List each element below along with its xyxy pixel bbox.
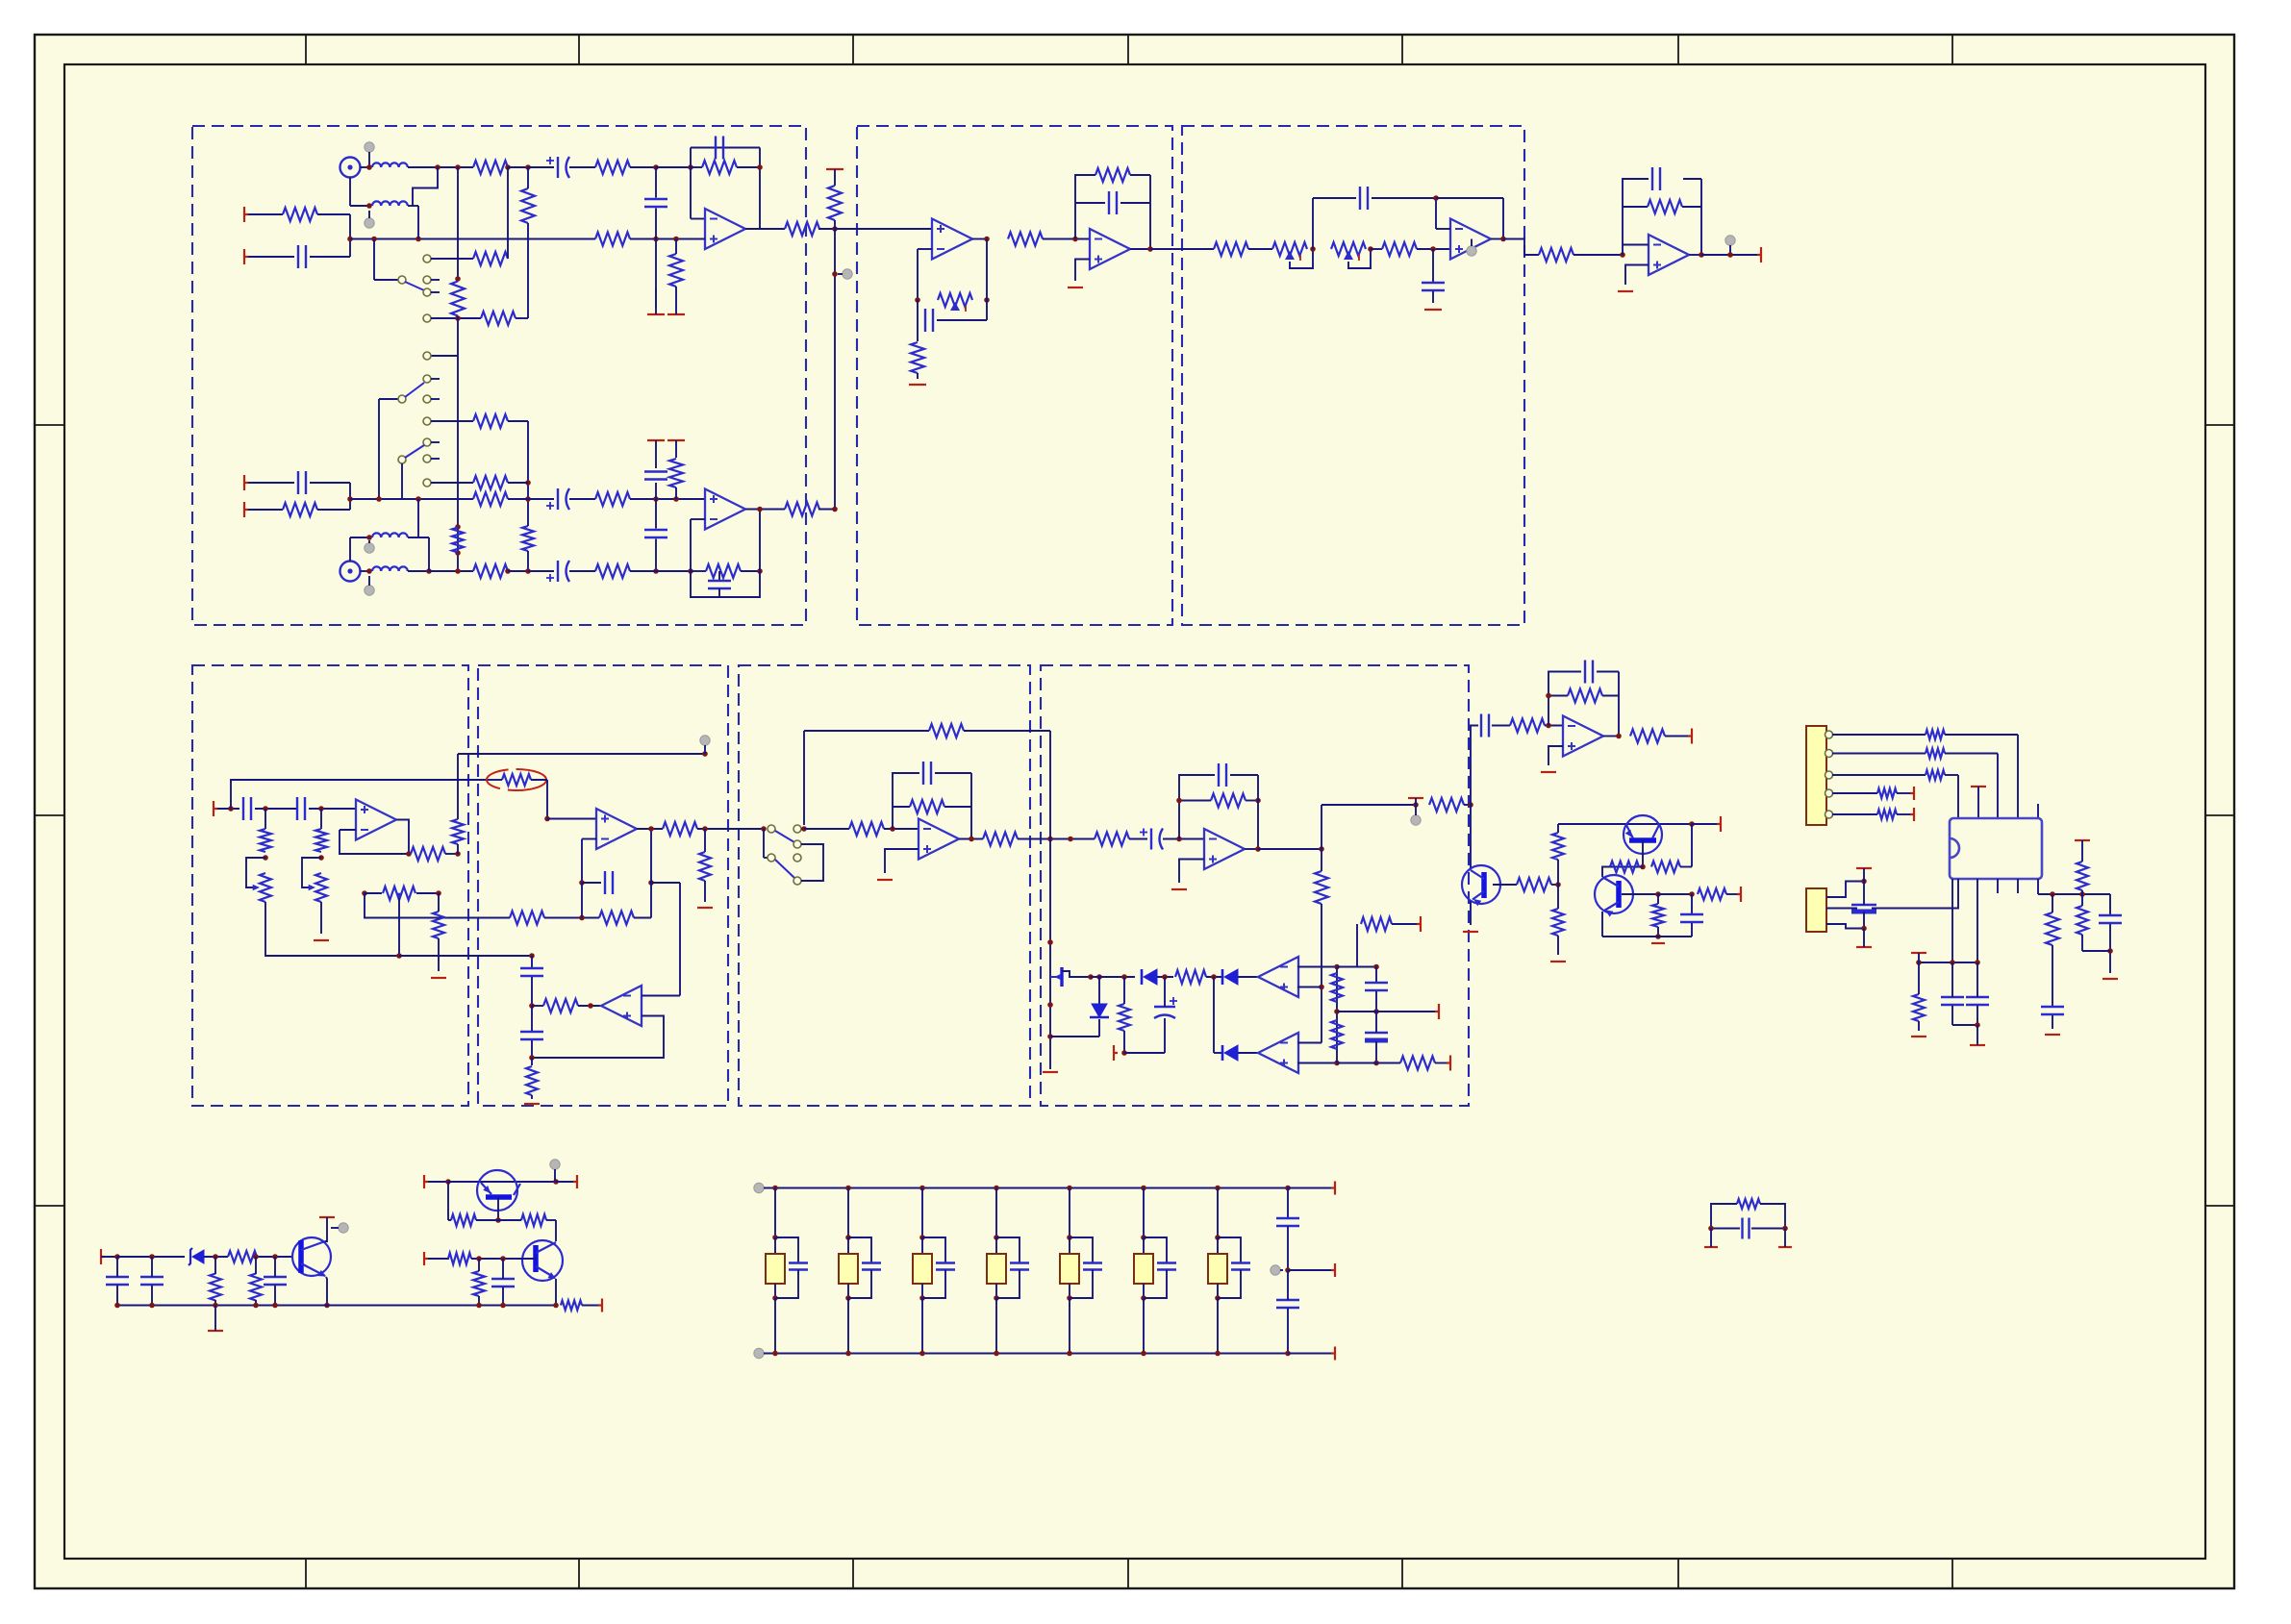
junction J4 top	[1861, 879, 1867, 885]
RV5 wiper strap wire	[302, 858, 321, 887]
wire	[1206, 976, 1223, 978]
wire ladder bottom rail	[764, 1353, 1288, 1355]
switch SW4 throw A1	[793, 825, 801, 833]
wire Q7 collector	[1602, 867, 1610, 878]
wire cap top rail	[1337, 966, 1376, 968]
junction emitter rail	[1655, 934, 1661, 939]
wire	[1464, 804, 1471, 806]
wire	[1432, 249, 1434, 283]
U2 feedback capacitor loop wire	[691, 571, 760, 597]
feedback resistor R31	[1648, 200, 1682, 213]
wire to ellipse resistor	[231, 780, 488, 809]
polarized capacitor C30	[1851, 904, 1876, 906]
wire rail3 to U2+	[630, 498, 705, 500]
net dot grey	[843, 269, 852, 279]
border zone ticks	[305, 35, 307, 1588]
wire	[1337, 966, 1357, 968]
wire Q1 collector	[325, 1225, 327, 1241]
switch SW2 contact 5	[423, 438, 431, 446]
resistor R26	[911, 342, 924, 373]
wire U6 output	[1689, 254, 1701, 256]
capacitor C31	[1941, 996, 1964, 998]
U11 fb cap rail wire	[1548, 672, 1581, 726]
junction ladder bottom 6	[1141, 1351, 1146, 1357]
wire Q5 rail top corner	[1471, 726, 1478, 806]
wire to U12	[1957, 775, 1959, 818]
resistor R51	[1119, 1004, 1130, 1031]
wire cap strap 6	[1144, 1237, 1167, 1262]
wire	[320, 809, 322, 829]
wire J4-1	[1826, 882, 1862, 898]
wire	[1050, 1036, 1099, 1037]
ground pin G9	[524, 1103, 540, 1105]
U4 feedback mid rail wire	[1075, 202, 1105, 204]
wire rail1 hook to shield row	[413, 167, 438, 206]
switch SW2 pivot	[398, 395, 406, 403]
wire leg 5 lower	[1069, 1284, 1070, 1298]
switch SW2 contact 6	[423, 455, 431, 462]
wire	[1129, 838, 1147, 840]
wire SW2 pivot to rail3	[378, 399, 380, 499]
junction ladder top 5	[1067, 1186, 1072, 1191]
junction F node	[801, 826, 807, 832]
capacitor C35	[106, 1276, 129, 1278]
wire	[1863, 912, 1865, 929]
power pin VL1	[1331, 1182, 1335, 1195]
junction trim-b	[984, 297, 990, 303]
junction ladder bottom 7	[1215, 1351, 1221, 1357]
ground pin G3	[909, 384, 926, 386]
junction to Q5 rail	[1468, 802, 1473, 808]
wire	[544, 917, 599, 919]
resistor R60	[1552, 909, 1564, 936]
wire to U2 inverting input	[690, 519, 692, 571]
junction ladder top 7	[1215, 1186, 1221, 1191]
wire fb right	[1049, 731, 1051, 833]
wire Q7 row	[1608, 866, 1643, 868]
wire	[471, 1258, 536, 1260]
feedback capacitor C23	[1218, 763, 1220, 787]
transistor Q5	[1462, 865, 1500, 904]
wire to U5 non-inverting input	[1417, 248, 1450, 250]
wire J1-1	[1832, 734, 1926, 736]
U6 feedback cap rail wire	[1623, 179, 1649, 245]
switch SW2 contact 1	[423, 352, 431, 360]
net dot grey Q1	[339, 1223, 348, 1233]
resistor R4	[785, 222, 819, 236]
connector J1 pin 3	[1825, 771, 1833, 779]
RV6 wiper arrow	[396, 893, 403, 900]
wire U9 fb right	[970, 773, 972, 839]
power pin VP15	[2075, 839, 2090, 841]
wire U7 output to fb	[396, 820, 409, 855]
wire to SW1 pivot	[373, 239, 375, 281]
wire cap strap 2	[848, 1237, 871, 1262]
junction mid rail	[1373, 1009, 1379, 1014]
resistor R17	[283, 503, 317, 516]
op-amp U5	[1450, 219, 1491, 260]
net dot grey ladder mid	[1271, 1265, 1280, 1275]
op-amp U7	[356, 800, 396, 840]
wire Q2 base row	[428, 1258, 449, 1260]
switch SW4 throw A2	[793, 840, 801, 848]
network resistor pack RN6	[1134, 1254, 1153, 1284]
feedback capacitor C15	[1651, 167, 1653, 190]
wire	[655, 239, 657, 309]
resistor R65	[1926, 730, 1945, 739]
op-amp U6	[1649, 235, 1689, 275]
wire det down chain	[1321, 849, 1322, 871]
polarized capacitor C24	[1154, 1006, 1175, 1008]
resistor R35 (circled)	[502, 774, 531, 786]
wire	[1557, 885, 1559, 909]
junction U8 fb-a	[579, 880, 585, 886]
wire	[309, 808, 356, 810]
wire leg 4 upper	[995, 1188, 997, 1238]
resistor R68	[1877, 788, 1897, 798]
wire RC loop top right	[1760, 1204, 1785, 1229]
wire line out	[1701, 254, 1757, 256]
RCA jack P2 (right in)	[340, 562, 361, 582]
polarized capacitor C6	[557, 488, 559, 510]
ground pin G21	[2045, 1034, 2060, 1036]
U6 feedback res rail wire	[1623, 206, 1648, 208]
trimmer RV4 lower	[260, 873, 271, 902]
resistor R63	[1698, 888, 1726, 900]
wire	[1392, 923, 1417, 925]
resistor R59	[1552, 833, 1564, 860]
wire	[556, 1181, 573, 1183]
capacitor CL7	[1231, 1262, 1250, 1263]
wire fb to EQ-a	[1312, 198, 1314, 249]
wire U12 right pin	[2037, 879, 2039, 894]
wire ground rail	[117, 1305, 555, 1307]
U11 + input ground wire	[1548, 746, 1563, 765]
wire	[675, 440, 677, 458]
U13 inverting wire	[642, 995, 680, 997]
wire ladder top rail	[764, 1187, 1288, 1189]
wire leg 7 lower	[1217, 1284, 1219, 1298]
connector J1 pin 1	[1825, 731, 1833, 738]
wire cap strap 3 lower	[922, 1270, 945, 1299]
U14 - input wire	[1297, 966, 1337, 968]
wire feed-forward top	[458, 753, 705, 755]
wire bottom rail	[1337, 1062, 1400, 1064]
switch SW1 pivot	[398, 276, 406, 284]
connector J1 pin 4	[1825, 789, 1833, 797]
power pin VP17	[573, 1175, 577, 1188]
resistor R70	[1913, 994, 1925, 1021]
ground pin G14	[1541, 771, 1556, 773]
wire U12 pin to cap row b	[1976, 879, 1978, 962]
junction U11 inv node	[1546, 723, 1551, 729]
wire leg 1 lower	[774, 1284, 776, 1298]
ground pin G20	[1970, 1044, 1985, 1046]
capacitor C3	[297, 245, 299, 268]
resistor R7	[283, 208, 317, 221]
network resistor pack RN7	[1208, 1254, 1227, 1284]
RV6 left strap wire	[365, 893, 488, 918]
wire J4-2	[1826, 908, 1857, 910]
wire cap bottom	[1952, 1024, 1977, 1026]
wire	[264, 809, 266, 829]
resistor R5	[828, 186, 842, 220]
wire Q3 emitter	[497, 1197, 499, 1220]
switch SW1 contact 3	[423, 288, 431, 296]
capacitor C41	[1741, 1218, 1743, 1239]
wire U10 fb right	[1257, 775, 1259, 849]
resistor R12	[451, 282, 465, 316]
junction U13 in	[529, 1003, 535, 1009]
wire	[1287, 1188, 1289, 1218]
switch SW4 throw B1	[793, 854, 801, 862]
wire	[457, 167, 459, 281]
ground pin G5	[1424, 309, 1442, 311]
network resistor pack RN1	[766, 1254, 785, 1284]
wire	[1945, 734, 2018, 736]
capacitor C39	[1276, 1217, 1299, 1219]
resistor R25	[1008, 233, 1043, 246]
ground pin G1	[647, 313, 665, 315]
ground pin G10	[877, 879, 893, 881]
wire divider left	[447, 1182, 449, 1220]
wire cap row	[1919, 962, 1977, 963]
net dot grey	[365, 586, 374, 595]
capacitor C38	[491, 1278, 515, 1280]
RV4 wiper strap wire	[246, 858, 265, 887]
wire	[255, 808, 297, 810]
capacitor C4	[644, 198, 667, 200]
wire	[917, 300, 919, 320]
wire	[417, 206, 419, 239]
ground pin G11	[1171, 888, 1187, 890]
wire	[527, 223, 529, 318]
feedback resistor R27	[1095, 168, 1130, 182]
RV3 wiper strap wire	[1348, 249, 1371, 268]
wire	[204, 1256, 228, 1258]
resistor R66	[1926, 749, 1945, 759]
wire to U8 + input	[547, 818, 596, 820]
wire	[531, 779, 547, 781]
junction ladder bottom 4	[994, 1351, 999, 1357]
RV6 wiper down wire	[398, 898, 400, 956]
feedback resistor R56	[1568, 689, 1602, 703]
resistor R72	[2077, 862, 2088, 890]
junction rail1-a	[505, 164, 511, 170]
resistor R50	[1361, 917, 1392, 931]
wire fb row extension	[651, 882, 680, 884]
capacitor C34	[2099, 914, 2122, 916]
junction rail1-c	[653, 164, 659, 170]
U14 pullup wire	[1356, 924, 1358, 967]
U10 fb cap rail wire	[1179, 775, 1215, 839]
wire to U11 inverting input	[1545, 725, 1563, 727]
net dot grey mon	[1411, 815, 1421, 825]
junction Q3 out	[553, 1179, 559, 1185]
wire ellipse node down	[546, 780, 548, 819]
U4 + input ground wire	[1075, 260, 1090, 282]
wire	[1435, 1062, 1447, 1064]
resistor R33	[452, 819, 464, 844]
capacitor CL5	[1083, 1262, 1102, 1263]
junction U2 out node	[832, 507, 838, 512]
junction trim-a	[915, 297, 920, 303]
wire EQ output jog	[1503, 239, 1539, 256]
wire G left rail	[1049, 839, 1051, 1070]
wire J4-3	[1826, 924, 1862, 929]
feedback resistor R46	[1211, 794, 1246, 808]
wire to Q2 collector	[555, 1220, 557, 1241]
group box: oscillator amp	[478, 665, 728, 1106]
U10 fb res rail wire	[1179, 800, 1211, 802]
wire to U12	[2017, 735, 2019, 818]
U15 - input wire	[1297, 1042, 1322, 1044]
wire	[257, 1256, 291, 1258]
ground pin G25	[1778, 1246, 1792, 1248]
feedback capacitor C21	[922, 762, 924, 785]
power pin VP7	[1447, 1056, 1450, 1071]
wire leg 1 upper	[774, 1188, 776, 1238]
net dot grey	[365, 543, 374, 553]
RV4 wiper arrow	[253, 885, 260, 891]
wire cap strap 6 lower	[1144, 1270, 1167, 1299]
junction EQ-c	[1430, 246, 1436, 252]
ground pin G24	[1704, 1246, 1718, 1248]
junction U7 out	[406, 851, 412, 857]
wire divider	[1336, 967, 1338, 1063]
wire	[531, 1058, 533, 1065]
U15 + input wire	[1297, 1062, 1337, 1064]
ground pin G9b	[697, 907, 713, 909]
wire J1-2	[1832, 753, 1926, 755]
junction U1 fb	[757, 164, 763, 170]
resistor R69	[1877, 810, 1897, 819]
wire cap strap 7 lower	[1218, 1270, 1241, 1299]
resistor R21	[473, 564, 508, 578]
transistor Q2	[522, 1240, 563, 1281]
resistor R20	[669, 459, 683, 487]
wire J4 cap to U12	[1872, 879, 1958, 909]
feedback capacitor C14	[1359, 187, 1361, 210]
op-amp U9	[919, 819, 959, 860]
wire cap strap 1	[775, 1237, 798, 1262]
resistor R9	[473, 252, 508, 265]
junction ladder top 6	[1141, 1186, 1146, 1191]
wire	[1557, 824, 1559, 833]
wire cap strap 3	[922, 1237, 945, 1262]
junction U8 + node	[544, 816, 550, 822]
power pin VP2	[647, 439, 665, 441]
resistor R18	[473, 492, 508, 506]
wire U10 output	[1245, 848, 1258, 850]
power pin VL3	[1331, 1347, 1335, 1361]
wire	[1091, 976, 1135, 978]
switch SW3 pivot	[398, 456, 406, 463]
wire Q7 base	[1622, 893, 1658, 895]
wire to R42	[804, 828, 849, 830]
power pin VP3	[667, 439, 685, 441]
wire	[581, 883, 583, 918]
wire	[1436, 197, 1503, 199]
resistor R58	[1517, 878, 1551, 891]
wire Q5 emitter	[1470, 901, 1472, 925]
switch SW2 contact 2	[423, 375, 431, 383]
wire	[445, 853, 458, 855]
capacitor CL6	[1157, 1262, 1176, 1263]
network resistor pack RN5	[1060, 1254, 1079, 1284]
power pin VP4	[1408, 797, 1423, 799]
U1 feedback resistor rail wire	[691, 166, 702, 168]
resistor R22	[595, 564, 630, 578]
trimmer RV5 upper	[315, 829, 327, 852]
wire supply rail	[101, 1256, 117, 1258]
feedback capacitor C12	[1108, 191, 1110, 214]
wire cap strap 5 lower	[1070, 1270, 1093, 1299]
ground pin G4	[1068, 287, 1083, 288]
wire to U6 inverting node	[1573, 254, 1623, 256]
wire diode row	[1062, 971, 1091, 977]
junction trim row	[362, 890, 367, 896]
wire SW3 pivot to rail3	[401, 463, 403, 499]
feedback capacitor C2	[715, 137, 717, 160]
junction V rail right	[1689, 821, 1695, 827]
power pin VP11	[1910, 808, 1914, 821]
wire	[248, 482, 294, 484]
junction E cap leg	[529, 953, 535, 959]
wire	[320, 902, 322, 934]
U7 fb loop wire	[340, 829, 356, 831]
wire to U3 non-inverting input	[835, 228, 932, 230]
junction D-in	[228, 806, 234, 812]
zener diode D3	[1092, 1004, 1107, 1017]
wire J1-4	[1832, 792, 1877, 794]
wire Q3 rail	[448, 1181, 556, 1183]
wire U11 fb right	[1618, 672, 1620, 737]
resistor R36b	[699, 852, 711, 881]
input pin IN-R+	[244, 475, 248, 490]
op-amp U3	[932, 219, 972, 260]
transistor Q7	[1595, 875, 1633, 913]
resistor R28	[1214, 242, 1248, 256]
diode D4	[1224, 1045, 1238, 1061]
wire Q5 collector rail	[1470, 805, 1472, 868]
wire U5 output	[1491, 238, 1503, 240]
junction D-out	[455, 851, 461, 857]
junction Q7 base node	[1655, 891, 1661, 897]
resistor R81	[561, 1301, 582, 1311]
wire	[1751, 1228, 1785, 1230]
wire	[349, 483, 351, 499]
wire cap strap 7	[1218, 1237, 1241, 1262]
ground pin G13	[1114, 1045, 1118, 1061]
resistor R8	[669, 254, 683, 287]
trimmer potentiometer RV2	[1272, 242, 1307, 256]
wire U2 output	[745, 509, 785, 511]
junction bottom rail	[396, 953, 402, 959]
wire V rail	[1558, 823, 1692, 825]
U10 + input ground wire	[1179, 860, 1204, 884]
junction Q6/Q7 row	[1640, 864, 1646, 870]
polarized capacitor C26	[1365, 1032, 1388, 1034]
junction U9 inv node	[890, 826, 895, 832]
power pin VP13	[1856, 867, 1872, 869]
wire det to fb row	[1321, 805, 1322, 849]
throw bridge wire	[801, 844, 823, 881]
wire leg 3 upper	[921, 1188, 923, 1238]
junction P1/L1	[366, 164, 372, 170]
power pin VADJ	[424, 1252, 428, 1265]
wire	[349, 214, 351, 239]
